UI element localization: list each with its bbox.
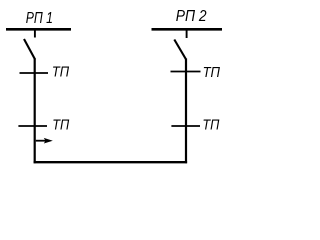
wire: feeder 1 vertical [34,59,36,164]
wire: stub from busbar РП 2 [186,29,188,38]
wire: feeder 2 vertical [185,59,187,164]
tap ТП (feeder 1, upper) [20,72,49,74]
switch blade (feeder 1 disconnector) [24,39,35,60]
svg-text:ТП: ТП [203,65,221,81]
tap ТП (feeder 1, lower) [18,125,47,127]
svg-text:ТП: ТП [52,65,70,81]
switch blade (feeder 2 disconnector) [174,40,186,60]
svg-text:РП 1: РП 1 [26,10,53,27]
wire: stub from busbar РП 1 [34,29,36,37]
tap ТП (feeder 2, upper) [171,71,201,73]
tap ТП (feeder 2, lower) [171,125,200,127]
svg-text:РП 2: РП 2 [176,8,207,25]
svg-text:ТП: ТП [52,118,69,134]
busbar РП 2 [152,28,223,31]
busbar РП 1 [6,28,71,31]
wire: tie line between feeders [34,161,188,163]
svg-text:ТП: ТП [202,117,219,133]
arrow: power-flow direction on tie line [36,138,53,144]
